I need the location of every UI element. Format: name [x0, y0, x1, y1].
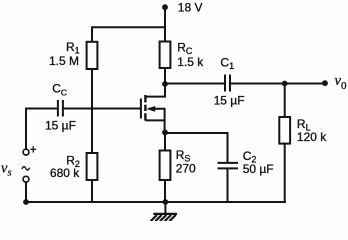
svg-text:270: 270: [176, 161, 196, 175]
capacitor C2 top plate: [219, 162, 238, 164]
capacitor C1 left plate: [224, 76, 226, 91]
wire C2 bottom to ground rail: [227, 169, 229, 202]
svg-text:18 V: 18 V: [178, 0, 203, 14]
svg-text:680 k: 680 k: [50, 166, 80, 180]
resistor R1: [87, 42, 98, 69]
wire VDD vertical to RC top: [164, 7, 166, 41]
svg-text:15 µF: 15 µF: [45, 119, 76, 133]
node VDD supply dot: [162, 4, 168, 10]
node output terminal dot: [322, 80, 328, 86]
wire top branch to R1: [92, 27, 165, 42]
wire ground stub: [164, 202, 166, 213]
wire CC to gate: [64, 108, 140, 110]
node source junction dot: [162, 130, 168, 136]
node vs bottom dot: [23, 199, 29, 205]
ground symbol hatch lines: [151, 215, 176, 221]
wire vs bottom lead: [25, 182, 27, 202]
svg-text:50 µF: 50 µF: [243, 162, 274, 176]
svg-text:C1: C1: [220, 55, 234, 71]
svg-text:v0: v0: [335, 73, 347, 92]
resistor RL: [279, 117, 290, 144]
transistor Q1 drain lead: [147, 84, 166, 97]
source vs tilde sign: [22, 167, 29, 170]
svg-text:vs: vs: [1, 160, 12, 178]
svg-text:15 µF: 15 µF: [214, 93, 245, 107]
node ground junction dot: [163, 199, 169, 205]
capacitor CC left plate: [57, 101, 59, 116]
capacitor CC right plate: [62, 101, 64, 116]
transistor Q1 channel bottom segment: [144, 113, 146, 120]
svg-text:1.5 k: 1.5 k: [177, 55, 204, 69]
transistor Q1 source lead: [147, 119, 165, 121]
svg-text:1.5 M: 1.5 M: [49, 54, 79, 68]
capacitor C1 right plate: [229, 76, 231, 91]
node RL junction dot: [282, 81, 288, 87]
transistor Q1 body arrowhead: [146, 106, 155, 112]
wire source node to C2: [165, 133, 228, 162]
wire source node down to RS: [164, 132, 166, 150]
svg-text:120 k: 120 k: [297, 130, 327, 144]
wire R2 bottom to ground rail: [91, 180, 93, 202]
wire input line vs to CC: [26, 109, 57, 150]
transistor Q1 body lead with arrow: [150, 109, 165, 133]
wire RL bottom to ground rail: [284, 144, 286, 202]
capacitor C2 bottom plate: [219, 167, 238, 169]
source vs minus terminal circle: [23, 176, 29, 182]
svg-text:RC: RC: [177, 41, 193, 57]
resistor RC: [160, 42, 171, 69]
source vs plus terminal circle: [23, 149, 29, 155]
source vs plus sign: [31, 147, 36, 152]
transistor Q1 gate bar: [140, 99, 142, 119]
resistor R2: [87, 153, 98, 180]
wire drain node to C1 left plate: [165, 83, 224, 85]
wire R1 bottom to gate node: [91, 69, 93, 153]
node drain junction dot: [162, 81, 168, 87]
wire RS bottom to ground rail: [164, 180, 166, 202]
wire RL junction down to RL top: [284, 84, 286, 118]
transistor Q1 channel middle segment: [144, 105, 146, 111]
transistor Q1 channel top segment: [144, 95, 146, 102]
wire ground rail: [26, 201, 285, 203]
wire C1 to output terminal: [231, 83, 325, 85]
svg-text:CC: CC: [52, 82, 67, 98]
ground symbol bar: [155, 213, 177, 215]
resistor RS: [160, 151, 171, 181]
wire RC bottom to drain node: [164, 68, 166, 84]
